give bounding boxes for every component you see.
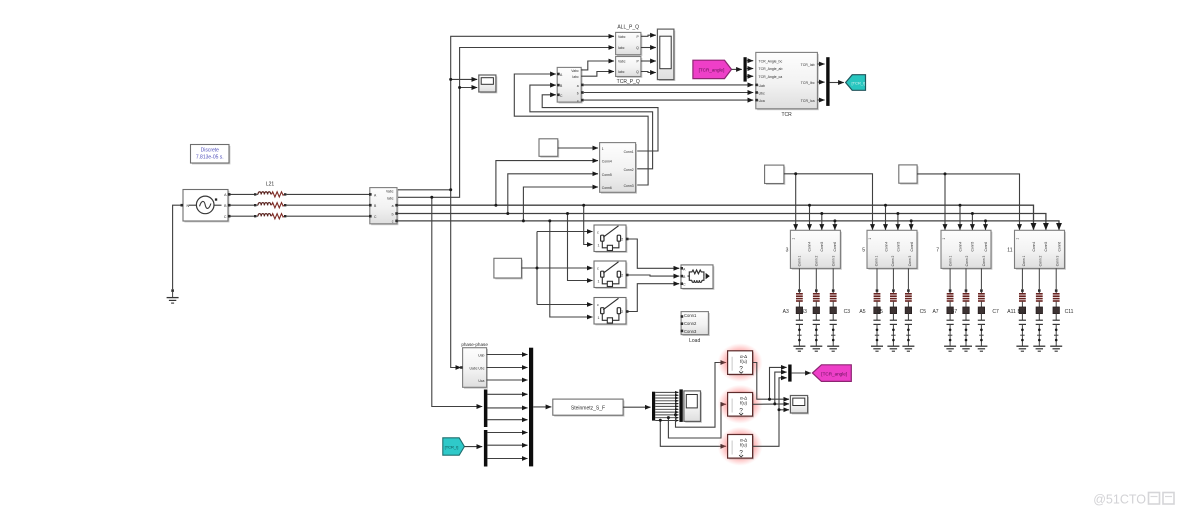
junction bus a / delta Conn4 bbox=[494, 204, 497, 207]
filter bank subsystem 5 bbox=[867, 230, 918, 269]
scope block (Vabc/Iabc) bbox=[479, 75, 498, 93]
bus wire phase b bbox=[398, 214, 1046, 230]
wire RL branch B to VI measurement bbox=[286, 204, 369, 206]
svg-text:Conn4: Conn4 bbox=[958, 242, 962, 252]
wire bus a to filter Conn4 x=960.0 bbox=[959, 205, 961, 230]
filter RLC branch A7 with ground bbox=[944, 268, 956, 351]
svg-text:2: 2 bbox=[621, 238, 623, 242]
junction bus c x=834.9 bbox=[833, 219, 836, 222]
three-phase series RLC load bbox=[680, 265, 714, 290]
wire bus b to filter Conn5 x=821.8 bbox=[821, 214, 823, 230]
svg-text:Conn 1: Conn 1 bbox=[798, 256, 802, 267]
svg-text:TCR_Angle_ab: TCR_Angle_ab bbox=[759, 67, 783, 71]
firing angle block 1 (alpha computation, highlighted) bbox=[718, 343, 763, 382]
svg-text:Conn1: Conn1 bbox=[624, 150, 634, 154]
wire phase-phase output to mux y=380.0 bbox=[487, 379, 528, 381]
wire RL branch C to VI measurement bbox=[286, 215, 369, 217]
svg-text:Iabc: Iabc bbox=[618, 46, 625, 50]
demux (TCR currents) bbox=[484, 430, 488, 467]
phase-phase voltage block bbox=[460, 348, 488, 389]
svg-text:2: 2 bbox=[621, 310, 623, 314]
svg-text:[TCR_I]: [TCR_I] bbox=[445, 444, 459, 449]
svg-text:1: 1 bbox=[598, 244, 600, 248]
svg-text:Conn 1: Conn 1 bbox=[948, 256, 952, 267]
wire ladder signal 11 bbox=[655, 420, 678, 422]
Load subsystem bbox=[681, 312, 710, 336]
wire Uab to TCR bbox=[584, 84, 753, 86]
Steinmetz_S_F block bbox=[553, 399, 625, 417]
svg-text:1: 1 bbox=[792, 238, 796, 240]
bus wire phase c bbox=[398, 221, 1059, 230]
filter RLC branch A11 with ground bbox=[1016, 268, 1028, 351]
wire demux1 output to mux y=394.3 bbox=[487, 393, 527, 395]
junction bus b x=972.4 bbox=[971, 212, 974, 215]
powergui block (Discrete sample time) bbox=[191, 145, 231, 165]
wire to firing block 2 bbox=[668, 404, 726, 438]
svg-text:Conn 3: Conn 3 bbox=[1056, 256, 1060, 267]
svg-text:Conn6: Conn6 bbox=[984, 242, 988, 252]
svg-text:Ubc: Ubc bbox=[759, 91, 765, 95]
wire TCR output to mux y=100.0 bbox=[817, 99, 824, 101]
wire source phase C to RL branch bbox=[231, 215, 255, 217]
svg-text:Conn6: Conn6 bbox=[910, 242, 914, 252]
svg-text:Q: Q bbox=[636, 46, 639, 50]
svg-text:Conn3: Conn3 bbox=[624, 184, 634, 188]
svg-text:Vabc: Vabc bbox=[386, 189, 394, 193]
wire delta Conn6 to bus c bbox=[523, 187, 598, 220]
svg-text:C5: C5 bbox=[920, 309, 927, 315]
svg-text:L21: L21 bbox=[266, 182, 275, 188]
wire bus c to breaker3 port1 bbox=[550, 221, 593, 317]
svg-text:Uca: Uca bbox=[759, 99, 765, 103]
wire delta subsystem Conn3 to VI2 A bbox=[514, 74, 648, 185]
wire Steinmetz_S_F to demux3 bbox=[623, 406, 650, 408]
wire ladder signal 5 bbox=[655, 403, 678, 405]
power measurement block ALL_P_Q bbox=[616, 32, 643, 56]
wire demux to TCR angle input y=60.7 bbox=[747, 60, 754, 62]
wire ALL_P_Q Q to scope bbox=[641, 47, 656, 49]
junction bus c x=911.2 bbox=[910, 219, 913, 222]
svg-text:a: a bbox=[577, 84, 579, 88]
wire bus c to filter Conn6 x=985.5 bbox=[985, 221, 987, 230]
svg-text:Conn4: Conn4 bbox=[884, 242, 888, 252]
junction bus b / breaker2 bbox=[566, 212, 569, 215]
wire breaker2 to load B bbox=[629, 275, 680, 276]
svg-text:Conn 1: Conn 1 bbox=[1022, 256, 1026, 267]
wire breaker3 to load C bbox=[629, 284, 680, 312]
wire demux2 output to mux y=445.2 bbox=[487, 444, 527, 446]
wire delta Conn4 to bus a bbox=[496, 161, 598, 205]
junction timer filter3 bbox=[794, 172, 797, 175]
svg-text:TCR_Ibc: TCR_Ibc bbox=[801, 81, 815, 85]
scope block (firing angles) bbox=[790, 396, 809, 415]
junction firing3 scope/mux bbox=[778, 408, 781, 411]
junction firing2 scope/mux bbox=[773, 402, 776, 405]
svg-text:Conn5: Conn5 bbox=[820, 242, 824, 252]
wire TCR output to mux y=64.0 bbox=[817, 63, 824, 65]
wire timer branch to filter 7 input bbox=[944, 174, 946, 230]
wire demux to TCR angle input y=68.5 bbox=[747, 68, 754, 70]
wire Vabc riser bbox=[398, 36, 614, 190]
mux (TCR angles) bbox=[788, 365, 791, 382]
filter RLC branch B11 with ground bbox=[1033, 268, 1045, 351]
svg-text:Conn4: Conn4 bbox=[602, 160, 612, 164]
svg-text:c: c bbox=[577, 99, 579, 103]
svg-text:Conn6: Conn6 bbox=[833, 242, 837, 252]
svg-text:1: 1 bbox=[1016, 238, 1020, 240]
svg-text:phase-phase: phase-phase bbox=[461, 342, 488, 347]
svg-text:c: c bbox=[392, 219, 394, 223]
bus wire phase a bbox=[398, 205, 1034, 230]
svg-text:Conn6: Conn6 bbox=[602, 186, 612, 190]
From tag [TCR_angle] (magenta) bbox=[693, 60, 732, 78]
filter RLC branch A3 with ground bbox=[793, 268, 805, 351]
timer block (filter banks 3,5) bbox=[765, 165, 786, 185]
svg-text:Conn3: Conn3 bbox=[684, 329, 697, 334]
wire bus a to filter Conn4 x=809.5 bbox=[809, 205, 811, 230]
RL branch L21 phase A (inductor + resistor) bbox=[254, 192, 286, 197]
wire delta subsystem Conn1 to VI2 C bbox=[542, 95, 658, 151]
filter bank subsystem 11 bbox=[1015, 230, 1066, 269]
svg-text:Steinmetz_S_F: Steinmetz_S_F bbox=[571, 405, 605, 411]
svg-text:3: 3 bbox=[786, 248, 789, 254]
svg-text:1: 1 bbox=[602, 147, 604, 151]
svg-text:1: 1 bbox=[942, 238, 946, 240]
junction bus b / delta Conn5 bbox=[506, 212, 509, 215]
svg-text:Conn1: Conn1 bbox=[684, 313, 697, 318]
wire bus b to filter Conn5 x=897.9 bbox=[897, 214, 899, 230]
svg-text:c: c bbox=[597, 230, 599, 234]
wire bus c to filter Conn6 x=834.9 bbox=[834, 221, 836, 230]
filter RLC branch B5 with ground bbox=[887, 268, 899, 351]
svg-text:Vabc: Vabc bbox=[618, 60, 626, 64]
junction ladder/firing1 bbox=[674, 413, 677, 416]
wire source phase B to RL branch bbox=[231, 204, 255, 206]
svg-text:f(u): f(u) bbox=[740, 359, 747, 364]
svg-text:Conn 2: Conn 2 bbox=[1039, 256, 1043, 267]
svg-text:Conn 2: Conn 2 bbox=[891, 256, 895, 267]
wire ladder signal 3 bbox=[655, 397, 678, 399]
junction ladder/firing3 bbox=[659, 419, 662, 422]
svg-text:Discrete: Discrete bbox=[201, 148, 220, 154]
ground symbol under source bbox=[167, 289, 179, 303]
junction bus a x=809.5 bbox=[808, 204, 811, 207]
wire VI2 Vabc to TCR_P_Q bbox=[581, 61, 614, 70]
svg-text:Conn5: Conn5 bbox=[897, 242, 901, 252]
svg-text:Conn6: Conn6 bbox=[1057, 242, 1061, 252]
svg-text:b: b bbox=[577, 92, 579, 96]
junction bus c / breaker3 bbox=[548, 219, 551, 222]
wire demux1 output to mux y=419.7 bbox=[487, 419, 527, 421]
wire firing1 to mux bbox=[770, 367, 787, 399]
filter RLC branch A5 with ground bbox=[871, 268, 883, 351]
wire ladder signal 9 bbox=[655, 414, 678, 416]
junction bus c x=985.5 bbox=[984, 219, 987, 222]
svg-text:Iabc: Iabc bbox=[572, 75, 579, 79]
wire bus b to breaker2 port1 bbox=[568, 214, 593, 281]
svg-text:TCR_Angle_bc: TCR_Angle_bc bbox=[759, 59, 783, 63]
svg-text:1: 1 bbox=[598, 316, 600, 320]
junction bus c / delta Conn6 bbox=[522, 219, 525, 222]
wire ladder signal 2 bbox=[655, 394, 678, 396]
svg-text:c: c bbox=[597, 303, 599, 307]
junction firing1 scope/mux bbox=[768, 398, 771, 401]
svg-text:7.813e-05 s.: 7.813e-05 s. bbox=[196, 154, 224, 160]
svg-text:f(u): f(u) bbox=[740, 443, 747, 448]
timer block (filter banks 7,11) bbox=[899, 165, 919, 185]
junction bus a x=885.5 bbox=[884, 204, 887, 207]
wire TCR_I tag to demux bbox=[464, 446, 482, 448]
junction bus a / breaker1 bbox=[582, 204, 585, 207]
svg-text:Conn 3: Conn 3 bbox=[908, 256, 912, 267]
svg-text:TCR: TCR bbox=[781, 112, 792, 118]
svg-text:ALL_P_Q: ALL_P_Q bbox=[617, 25, 639, 31]
RL branch L21 phase C (inductor + resistor) bbox=[254, 214, 286, 219]
junction Iabc riser/drop bbox=[430, 196, 433, 199]
wire ladder signal 7 bbox=[655, 408, 678, 410]
svg-text:C: C bbox=[224, 215, 227, 219]
svg-text:7: 7 bbox=[936, 248, 939, 254]
svg-text:TCR_Iab: TCR_Iab bbox=[801, 63, 815, 67]
wire breaker1 to load A bbox=[629, 239, 680, 268]
wire mux to TCR_I goto bbox=[830, 82, 844, 84]
svg-text:C7: C7 bbox=[992, 309, 999, 315]
wire firing3 output bbox=[753, 378, 787, 447]
wire demux2 output to mux y=432.5 bbox=[487, 432, 527, 434]
demux (TCR angle signals) bbox=[744, 57, 747, 81]
Goto tag [TCR_I] (cyan) bbox=[846, 75, 866, 91]
svg-text:Uab: Uab bbox=[478, 353, 484, 357]
svg-text:5: 5 bbox=[862, 248, 865, 254]
svg-text:@51CTO: @51CTO bbox=[1093, 493, 1146, 507]
svg-text:Q: Q bbox=[636, 70, 639, 74]
svg-text:Conn5: Conn5 bbox=[1044, 242, 1048, 252]
junction Vabc to scope bbox=[449, 78, 452, 81]
svg-text:1: 1 bbox=[868, 238, 872, 240]
svg-text:c: c bbox=[597, 266, 599, 270]
svg-text:2: 2 bbox=[621, 274, 623, 278]
svg-text:C3: C3 bbox=[844, 309, 851, 315]
svg-text:N: N bbox=[187, 204, 190, 208]
wire mux to TCR_angle goto bbox=[792, 372, 811, 374]
firing angle block 2 (alpha computation, highlighted) bbox=[718, 385, 763, 424]
svg-text:11: 11 bbox=[1007, 248, 1012, 254]
junction bus b x=897.9 bbox=[896, 212, 899, 215]
circuit breaker 2 (phase b) bbox=[594, 261, 629, 289]
wire firing1 output bbox=[753, 363, 789, 400]
junction bus b x=821.8 bbox=[820, 212, 823, 215]
demux (Steinmetz outputs) bbox=[652, 392, 655, 421]
scope block (P Q measurements) bbox=[657, 29, 675, 81]
three-phase programmable voltage source bbox=[181, 190, 231, 223]
svg-text:Conn5: Conn5 bbox=[971, 242, 975, 252]
filter RLC branch C11 with ground bbox=[1050, 268, 1062, 351]
wire breaker control vertical bbox=[536, 232, 538, 305]
filter RLC branch B3 with ground bbox=[810, 268, 822, 351]
svg-text:A3: A3 bbox=[783, 309, 789, 315]
firing angle block 3 (alpha computation, highlighted) bbox=[718, 427, 763, 466]
wire TCR output to mux y=82.1 bbox=[817, 81, 824, 83]
svg-text:Conn4: Conn4 bbox=[808, 242, 812, 252]
svg-text:Conn2: Conn2 bbox=[684, 321, 697, 326]
wire breaker control to breaker1 c bbox=[537, 231, 593, 233]
From tag [TCR_I] (cyan) bbox=[443, 438, 465, 455]
wire Vabc branch to scope bbox=[451, 78, 478, 80]
svg-text:a: a bbox=[392, 204, 394, 208]
junction Iabc to scope bbox=[458, 86, 461, 89]
wire timer to delta subsystem input 1 bbox=[558, 147, 598, 149]
three-phase V-I measurement block 2 (TCR branch) bbox=[557, 67, 584, 103]
timer block (delta subsystem control) bbox=[539, 139, 559, 158]
wire RL branch A to VI measurement bbox=[286, 193, 369, 195]
delta-connected TCR subsystem bbox=[600, 143, 637, 194]
wire bus c to filter Conn6 x=911.2 bbox=[910, 221, 912, 230]
svg-text:Uca: Uca bbox=[478, 379, 484, 383]
svg-text:Conn 3: Conn 3 bbox=[982, 256, 986, 267]
svg-text:Load: Load bbox=[689, 338, 700, 344]
wire Iabc branch to scope bbox=[460, 87, 478, 89]
svg-text:A5: A5 bbox=[859, 309, 865, 315]
wire Iabc riser bbox=[398, 48, 614, 198]
RL branch L21 phase B (inductor + resistor) bbox=[254, 203, 286, 208]
svg-text:C11: C11 bbox=[1065, 309, 1074, 315]
mux (scope bundle) bbox=[679, 389, 682, 422]
Goto tag [TCR_angle] (magenta) bbox=[812, 365, 851, 382]
svg-text:Iabc: Iabc bbox=[618, 70, 625, 74]
svg-text:Vabc: Vabc bbox=[618, 35, 626, 39]
power measurement block TCR_P_Q bbox=[616, 57, 643, 78]
wire phase-phase output to mux y=367.5 bbox=[487, 367, 528, 369]
TCR subsystem bbox=[755, 52, 819, 110]
junction timer filter7 bbox=[944, 172, 947, 175]
wire ladder signal 6 bbox=[655, 405, 678, 407]
wire ladder signal 4 bbox=[655, 400, 678, 402]
junction breaker control bbox=[536, 267, 539, 270]
wire breaker control to breaker3 c bbox=[537, 304, 593, 306]
wire TCR_angle tag to demux bbox=[732, 68, 742, 70]
svg-text:TCR_P_Q: TCR_P_Q bbox=[617, 79, 640, 85]
svg-text:[TCR_angle]: [TCR_angle] bbox=[699, 68, 725, 73]
wire TCR_P_Q P to scope bbox=[641, 60, 656, 62]
scope block (Steinmetz signals) bbox=[684, 391, 702, 423]
wire demux1 output to mux y=407.9 bbox=[487, 407, 527, 409]
filter RLC branch C5 with ground bbox=[902, 268, 914, 351]
svg-text:Conn 2: Conn 2 bbox=[965, 256, 969, 267]
svg-text:Conn 2: Conn 2 bbox=[815, 256, 819, 267]
demux (Iabc to phase currents) bbox=[484, 390, 488, 428]
wire ALL_P_Q P to scope bbox=[641, 35, 656, 36]
svg-text:Uabc Ubc: Uabc Ubc bbox=[470, 366, 485, 370]
filter RLC branch B7 with ground bbox=[960, 268, 972, 351]
wire source phase A to RL branch bbox=[231, 193, 255, 195]
wire firing2 to mux bbox=[775, 372, 787, 404]
svg-text:C: C bbox=[683, 283, 686, 287]
wire bus b to filter Conn5 x=972.4 bbox=[971, 214, 973, 230]
wire bus a to breaker1 port1 bbox=[584, 205, 593, 244]
svg-text:TCR_Ica: TCR_Ica bbox=[801, 99, 815, 103]
svg-text:Vabc: Vabc bbox=[571, 69, 579, 73]
svg-text:Conn2: Conn2 bbox=[624, 168, 634, 172]
svg-text:B11: B11 bbox=[1018, 309, 1027, 315]
svg-text:TCR_Angle_ca: TCR_Angle_ca bbox=[759, 75, 783, 79]
wire timer to filter 5 input bbox=[784, 174, 873, 230]
junction Vabc riser/drop bbox=[449, 188, 452, 191]
wire to firing block 1 bbox=[676, 363, 727, 428]
wire delta Conn5 to bus b bbox=[508, 174, 598, 213]
wire demux2 output to mux y=458.5 bbox=[487, 458, 527, 460]
svg-text:[TCR_I]: [TCR_I] bbox=[852, 81, 866, 86]
svg-text:[TCR_angle]: [TCR_angle] bbox=[821, 371, 847, 376]
wire demux to TCR angle input y=76.3 bbox=[747, 75, 754, 77]
filter RLC branch C3 with ground bbox=[827, 268, 839, 351]
svg-text:Uab: Uab bbox=[759, 84, 765, 88]
circuit breaker 1 (phase a) bbox=[594, 225, 629, 253]
svg-text:Conn5: Conn5 bbox=[602, 173, 612, 177]
wire bus a to filter Conn4 x=885.5 bbox=[885, 205, 887, 230]
svg-text:1: 1 bbox=[598, 280, 600, 284]
wire TCR_P_Q Q to scope bbox=[641, 72, 656, 73]
wire Vabc drop to phase-phase bbox=[451, 190, 461, 368]
circuit breaker 3 (phase c) bbox=[594, 298, 629, 326]
svg-text:B3: B3 bbox=[801, 309, 807, 315]
mux (Steinmetz inputs) bbox=[529, 348, 533, 467]
wire VI2 Iabc to TCR_P_Q bbox=[581, 72, 614, 77]
filter RLC branch C7 with ground bbox=[975, 268, 987, 351]
wire timer branch to filter 3 input bbox=[795, 174, 797, 230]
wire ladder signal 1 bbox=[655, 391, 678, 393]
wire to firing block 3 bbox=[660, 420, 726, 446]
svg-text:B5: B5 bbox=[877, 309, 883, 315]
wire Uca to TCR bbox=[584, 99, 753, 101]
wire Ubc to TCR bbox=[584, 92, 753, 94]
svg-text:Conn 1: Conn 1 bbox=[874, 256, 878, 267]
svg-text:Conn4: Conn4 bbox=[1032, 242, 1036, 252]
mux (TCR currents) bbox=[826, 57, 829, 106]
wire timer to filter 11 input bbox=[917, 174, 1019, 230]
wire firing2 output bbox=[753, 403, 789, 405]
wire mux to Steinmetz_S_F bbox=[533, 406, 551, 408]
svg-text:A11: A11 bbox=[1007, 309, 1016, 315]
wire delta subsystem Conn2 to VI2 B bbox=[530, 85, 653, 169]
wire breaker control horizontal to breaker2 c bbox=[522, 267, 593, 269]
wire Iabc drop to demux bbox=[432, 197, 482, 406]
wire firing3 to scope bbox=[779, 409, 789, 411]
wire ladder signal 10 bbox=[655, 417, 678, 419]
svg-text:Iabc: Iabc bbox=[387, 197, 394, 201]
junction ladder/firing2 bbox=[667, 416, 670, 419]
svg-text:B7: B7 bbox=[951, 309, 957, 315]
timer block (breaker control) bbox=[494, 258, 523, 279]
svg-text:f(u): f(u) bbox=[740, 401, 747, 406]
svg-text:Conn 3: Conn 3 bbox=[832, 256, 836, 267]
wire source N to ground bbox=[173, 205, 181, 289]
filter bank subsystem 7 bbox=[941, 230, 992, 269]
wire phase-phase output to mux y=354.5 bbox=[487, 354, 528, 356]
junction bus a x=960.0 bbox=[959, 204, 962, 207]
filter bank subsystem 3 bbox=[790, 230, 841, 269]
wire ladder signal 8 bbox=[655, 411, 678, 413]
three-phase V-I measurement block 1 bbox=[369, 188, 398, 226]
svg-text:A7: A7 bbox=[932, 309, 938, 315]
svg-text:b: b bbox=[392, 213, 394, 217]
